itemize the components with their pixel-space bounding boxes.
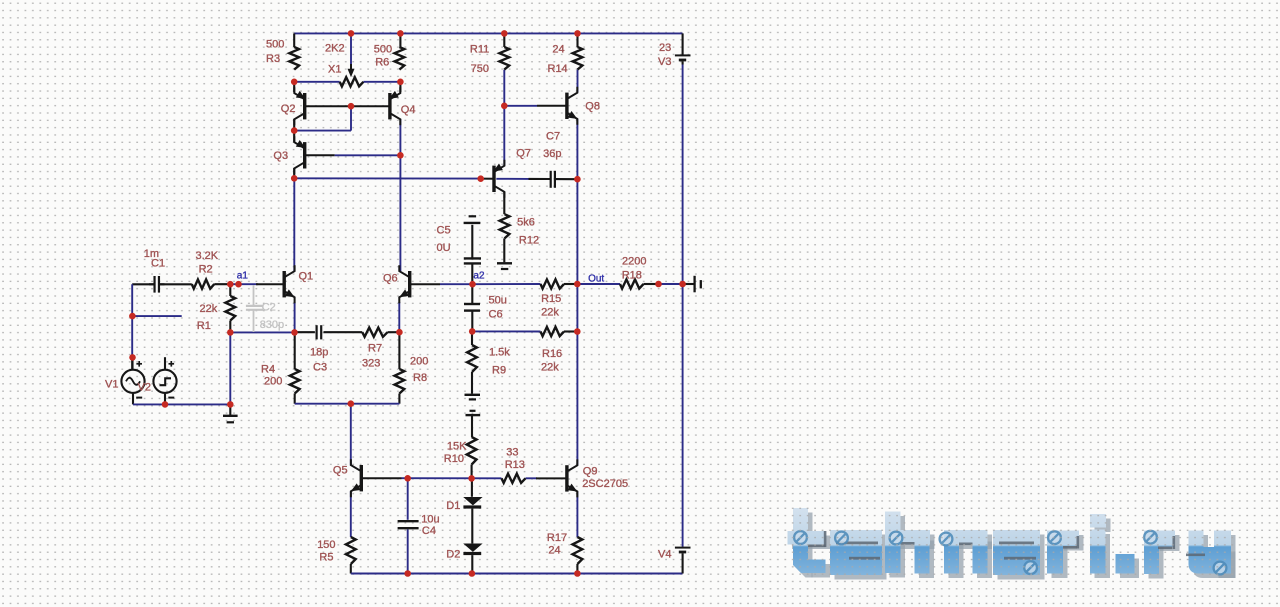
svg-text:2SC2705: 2SC2705 bbox=[582, 478, 628, 490]
svg-text:Q2: Q2 bbox=[281, 103, 296, 115]
svg-text:15K: 15K bbox=[447, 441, 467, 453]
svg-text:a1: a1 bbox=[237, 271, 249, 282]
svg-text:500: 500 bbox=[266, 39, 284, 51]
svg-text:24: 24 bbox=[548, 545, 560, 557]
svg-text:D2: D2 bbox=[446, 549, 460, 561]
svg-text:2K2: 2K2 bbox=[325, 43, 345, 55]
svg-text:Q9: Q9 bbox=[583, 466, 598, 478]
svg-text:50u: 50u bbox=[489, 295, 507, 307]
svg-text:R4: R4 bbox=[261, 364, 275, 376]
svg-text:X1: X1 bbox=[328, 64, 341, 76]
svg-text:R17: R17 bbox=[547, 532, 567, 544]
svg-text:R8: R8 bbox=[413, 372, 427, 384]
svg-text:500: 500 bbox=[374, 44, 392, 56]
svg-text:V4: V4 bbox=[658, 549, 671, 561]
svg-text:R2: R2 bbox=[199, 264, 213, 276]
svg-text:R14: R14 bbox=[548, 63, 568, 75]
svg-text:Q4: Q4 bbox=[401, 104, 416, 116]
svg-text:C1: C1 bbox=[151, 258, 165, 270]
svg-text:323: 323 bbox=[362, 358, 380, 370]
svg-text:0U: 0U bbox=[437, 242, 451, 254]
svg-text:V2: V2 bbox=[138, 382, 151, 394]
svg-text:a2: a2 bbox=[473, 271, 485, 282]
svg-text:36p: 36p bbox=[543, 148, 561, 160]
svg-text:Q8: Q8 bbox=[585, 101, 600, 113]
svg-text:150: 150 bbox=[317, 539, 335, 551]
svg-text:C3: C3 bbox=[313, 362, 327, 374]
svg-text:22k: 22k bbox=[541, 307, 559, 319]
svg-text:Q6: Q6 bbox=[383, 273, 398, 285]
svg-text:R12: R12 bbox=[519, 235, 539, 247]
svg-text:3.2K: 3.2K bbox=[196, 250, 219, 262]
svg-text:23: 23 bbox=[659, 42, 671, 54]
svg-text:10u: 10u bbox=[421, 514, 439, 526]
svg-text:5k6: 5k6 bbox=[517, 217, 535, 229]
svg-text:D1: D1 bbox=[446, 500, 460, 512]
svg-text:R18: R18 bbox=[622, 270, 642, 282]
svg-text:22k: 22k bbox=[541, 362, 559, 374]
svg-text:R6: R6 bbox=[375, 57, 389, 69]
svg-text:200: 200 bbox=[264, 376, 282, 388]
svg-text:Q5: Q5 bbox=[333, 465, 348, 477]
svg-text:33: 33 bbox=[506, 447, 518, 459]
svg-text:C5: C5 bbox=[437, 225, 451, 237]
svg-text:C2: C2 bbox=[262, 302, 276, 314]
svg-text:C4: C4 bbox=[422, 525, 436, 537]
svg-text:C6: C6 bbox=[489, 309, 503, 321]
svg-text:R13: R13 bbox=[505, 459, 525, 471]
svg-text:Q7: Q7 bbox=[516, 148, 531, 160]
svg-text:24: 24 bbox=[552, 44, 564, 56]
svg-text:R9: R9 bbox=[492, 365, 506, 377]
svg-text:1.5k: 1.5k bbox=[489, 347, 510, 359]
svg-text:750: 750 bbox=[471, 63, 489, 75]
svg-text:R7: R7 bbox=[368, 343, 382, 355]
svg-text:830p: 830p bbox=[260, 319, 284, 331]
svg-text:R16: R16 bbox=[542, 348, 562, 360]
svg-text:V1: V1 bbox=[105, 379, 118, 391]
svg-text:22k: 22k bbox=[200, 303, 218, 315]
svg-text:Out: Out bbox=[588, 274, 604, 285]
svg-text:R11: R11 bbox=[470, 44, 489, 56]
svg-text:R3: R3 bbox=[266, 53, 280, 65]
svg-text:R15: R15 bbox=[541, 293, 561, 305]
svg-text:V3: V3 bbox=[658, 56, 671, 68]
svg-text:R5: R5 bbox=[319, 552, 333, 564]
svg-text:200: 200 bbox=[410, 356, 428, 368]
svg-text:2200: 2200 bbox=[622, 256, 646, 268]
svg-text:C7: C7 bbox=[546, 131, 560, 143]
svg-text:Q3: Q3 bbox=[273, 150, 288, 162]
svg-text:R1: R1 bbox=[197, 320, 211, 332]
svg-text:Q1: Q1 bbox=[299, 271, 314, 283]
svg-text:R10: R10 bbox=[444, 453, 464, 465]
svg-text:18p: 18p bbox=[310, 347, 328, 359]
